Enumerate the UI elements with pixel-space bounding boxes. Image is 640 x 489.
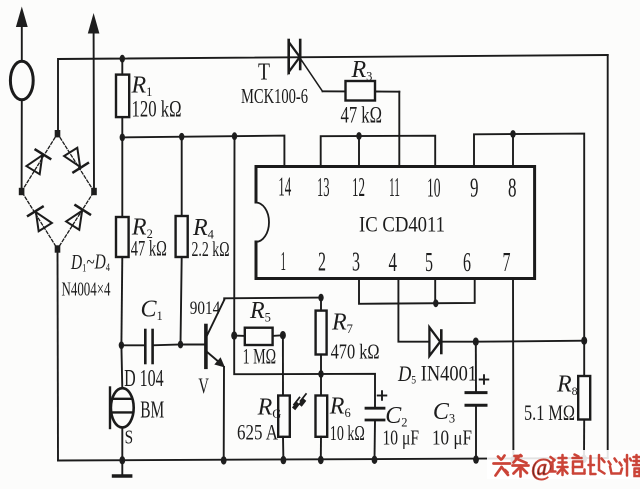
node: ground bus at emitter: [221, 456, 227, 464]
svg-text:7: 7: [503, 247, 511, 277]
wire: top bus from bridge top corner to top-right: [58, 55, 608, 135]
node: R5 right: [280, 331, 286, 339]
node: bus A at R4: [179, 133, 184, 141]
svg-text:S: S: [125, 427, 134, 449]
svg-text:10 μF: 10 μF: [383, 426, 420, 450]
resistor R2: [116, 137, 129, 345]
wire: pin 5 stub: [434, 279, 436, 304]
wire: AC lead L with arrow: [16, 7, 28, 62]
wire: bus A branch down to R5: [233, 136, 235, 335]
svg-text:@: @: [531, 455, 553, 481]
node: bridge left corner: [19, 188, 25, 195]
node: C1 right / R4 / base: [178, 341, 183, 349]
triac T: [289, 40, 323, 91]
wire: collector to pin 2: [224, 298, 321, 300]
wire: emitter down to ground bus: [223, 367, 225, 460]
node: bridge right corner: [91, 188, 97, 195]
transistor V 9014: [206, 300, 225, 368]
svg-text:1 MΩ: 1 MΩ: [243, 344, 277, 369]
diode D4: [65, 205, 90, 230]
resistor R4: [176, 137, 188, 345]
svg-text:12: 12: [352, 172, 365, 202]
capacitor C1: [121, 330, 180, 363]
ground: [114, 460, 131, 476]
diode D5: [429, 327, 475, 356]
lamp HL: [10, 61, 33, 100]
resistor R3: [323, 81, 400, 101]
wire: left side drop from bridge bottom: [57, 249, 60, 461]
photoresistor RG: [278, 394, 306, 460]
wire: R3 down to pin 11: [398, 92, 400, 167]
diode D3: [28, 207, 52, 232]
svg-text:T: T: [258, 60, 270, 86]
resistor R6: [316, 374, 328, 460]
wire: pin 4 down to D5: [398, 279, 429, 342]
IC U1 CD4011 body: [253, 167, 535, 279]
capacitor C2: [366, 391, 386, 460]
node: collector line at pin2/R7: [318, 294, 323, 302]
wire: pin 8 stub: [512, 134, 514, 167]
resistor R1: [116, 59, 129, 138]
node: bus A at R5 branch: [232, 132, 237, 140]
node: R5 left: [231, 331, 237, 339]
svg-text:1: 1: [281, 246, 287, 276]
wire: upper bus A to pin 14: [122, 136, 285, 167]
wire: right side drop: [607, 55, 609, 458]
node: loop at R7 bottom / R6 top: [318, 370, 323, 378]
svg-text:120 kΩ: 120 kΩ: [132, 97, 182, 122]
capacitor C3: [466, 342, 488, 460]
node: bracket at pin 5: [433, 299, 438, 307]
microphone BM: [110, 345, 134, 460]
svg-text:47 kΩ: 47 kΩ: [341, 103, 383, 128]
svg-text:2: 2: [318, 246, 326, 276]
wire: R5 right down to RG: [282, 335, 284, 395]
node: bus C at pin 8: [510, 130, 515, 138]
wire: lamp to bridge left corner: [21, 100, 23, 192]
diode D1: [26, 150, 50, 175]
svg-text:11: 11: [389, 172, 400, 202]
svg-text:V: V: [198, 373, 209, 398]
node: ground bus at R6: [318, 456, 324, 464]
svg-text:MCK100-6: MCK100-6: [241, 84, 308, 108]
wire: bottom ground bus: [58, 458, 608, 461]
svg-text:BM: BM: [140, 398, 164, 424]
diode D2: [63, 147, 88, 172]
resistor R7: [316, 298, 327, 374]
svg-text:IC CD4011: IC CD4011: [359, 212, 445, 237]
svg-text:13: 13: [317, 172, 330, 202]
svg-text:9: 9: [470, 173, 479, 203]
svg-text:10 kΩ: 10 kΩ: [330, 421, 365, 445]
svg-text:5.1 MΩ: 5.1 MΩ: [524, 400, 575, 425]
node: bus A at R1/R2: [120, 134, 125, 142]
svg-text:10: 10: [427, 172, 441, 202]
node: D5 cathode / C3: [473, 338, 479, 346]
svg-text:D5 IN4001: D5 IN4001: [397, 361, 477, 387]
wire: bus B pins 13-10: [321, 136, 436, 167]
svg-text:6: 6: [463, 247, 471, 277]
node: ground bus at C3: [473, 455, 479, 463]
svg-text:47 kΩ: 47 kΩ: [131, 236, 167, 261]
node: top wire junction at R1: [120, 55, 125, 63]
svg-text:2.2 kΩ: 2.2 kΩ: [192, 237, 230, 261]
svg-text:9014: 9014: [190, 298, 221, 319]
wire: AC lead N with arrow: [88, 13, 100, 192]
wire: pin 7 down to ground bus: [512, 279, 514, 460]
wire: base: [181, 344, 206, 346]
node: bridge top corner: [55, 130, 61, 137]
svg-text:470 kΩ: 470 kΩ: [331, 340, 380, 364]
svg-text:N4004×4: N4004×4: [62, 279, 111, 301]
diode bridge frame: [22, 134, 94, 250]
node: bus B at pin 12: [356, 132, 361, 140]
node: ground bus at C2: [372, 456, 378, 464]
watermark halo: [487, 450, 640, 479]
resistor R8: [578, 341, 590, 459]
wire: bus C pins 9 to R8 branch: [474, 134, 584, 341]
svg-text:14: 14: [278, 172, 291, 202]
svg-text:625 A: 625 A: [237, 420, 278, 445]
svg-text:4: 4: [389, 247, 398, 277]
wire: D5 node to R8 node: [476, 341, 584, 342]
wire: R5 left loop down to C2 top: [234, 336, 375, 408]
node: ground bus at mic: [119, 456, 125, 464]
node: R8 top / bus C: [581, 337, 587, 345]
node: bridge bottom corner: [55, 245, 61, 252]
node: ground bus at R8: [581, 455, 587, 463]
watermark: toutiao red text: [494, 455, 640, 482]
node: C1 left / mic: [119, 341, 124, 349]
node: ground bus at RG: [281, 456, 287, 464]
svg-text:10 μF: 10 μF: [432, 426, 472, 450]
svg-text:D 104: D 104: [124, 366, 164, 392]
wire: bracket pins 3-6: [359, 279, 475, 304]
wire: pin 12 stub: [358, 136, 360, 167]
svg-text:D1~D4: D1~D4: [70, 250, 110, 275]
svg-text:8: 8: [508, 173, 517, 203]
svg-text:3: 3: [352, 247, 360, 277]
node: ground bus at pin 7: [511, 456, 517, 464]
resistor R5: [234, 328, 283, 345]
svg-text:5: 5: [425, 247, 433, 277]
